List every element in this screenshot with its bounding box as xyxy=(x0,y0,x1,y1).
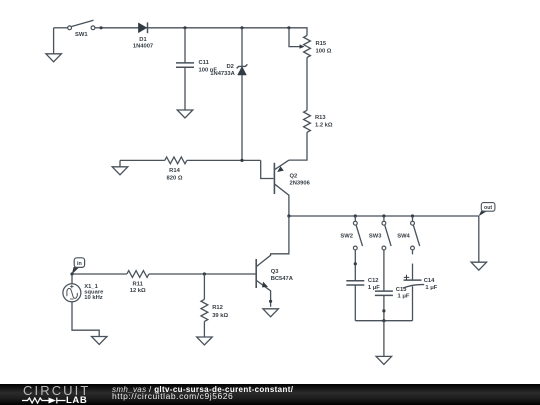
svg-text:SW2: SW2 xyxy=(340,233,353,239)
svg-text:1 μF: 1 μF xyxy=(425,285,437,291)
ground (out) xyxy=(471,216,487,270)
svg-text:R12: R12 xyxy=(212,305,223,311)
ground (R14) xyxy=(112,160,128,174)
svg-text:Q3: Q3 xyxy=(271,269,280,275)
ground (caps) xyxy=(376,321,392,365)
svg-text:10 kHz: 10 kHz xyxy=(84,295,102,301)
svg-text:Q2: Q2 xyxy=(290,173,298,179)
svg-text:D2: D2 xyxy=(227,64,234,70)
potentiometer R15 xyxy=(289,28,332,58)
source X1_1 xyxy=(63,274,104,337)
svg-text:R15: R15 xyxy=(316,41,327,47)
svg-text:SW3: SW3 xyxy=(369,233,382,239)
svg-text:R11: R11 xyxy=(133,282,144,288)
ground (SW1) xyxy=(46,28,62,62)
svg-text:1 μF: 1 μF xyxy=(368,285,380,291)
resistor R11 xyxy=(127,271,256,294)
capacitor C13 xyxy=(375,250,410,321)
svg-text:1N4007: 1N4007 xyxy=(133,43,153,49)
transistor Q2 xyxy=(274,160,310,216)
switch SW3 xyxy=(369,216,391,250)
switch SW1 xyxy=(54,20,101,38)
svg-text:SW1: SW1 xyxy=(75,32,88,38)
wire in to R11 xyxy=(70,272,127,275)
svg-text:C14: C14 xyxy=(424,278,435,284)
transistor Q3 xyxy=(256,216,294,307)
diode D1 xyxy=(133,22,153,49)
svg-text:2N3906: 2N3906 xyxy=(290,180,311,186)
ground (R12) xyxy=(197,337,213,345)
flag in xyxy=(72,258,85,275)
svg-text:1.2 kΩ: 1.2 kΩ xyxy=(315,122,333,128)
svg-text:100 Ω: 100 Ω xyxy=(316,49,332,55)
wire top rail xyxy=(99,26,307,35)
wire R15 to R13 xyxy=(306,58,308,111)
capacitor C12 xyxy=(346,250,380,321)
svg-text:out: out xyxy=(484,205,492,211)
resistor R12 xyxy=(201,274,228,337)
switch SW4 xyxy=(397,216,419,250)
svg-text:1N4733A: 1N4733A xyxy=(210,71,235,77)
resistor R13 xyxy=(304,110,333,132)
svg-text:R13: R13 xyxy=(315,115,326,121)
svg-text:39 kΩ: 39 kΩ xyxy=(212,313,228,319)
svg-text:C11: C11 xyxy=(199,60,210,66)
zener diode D2 xyxy=(210,28,247,161)
svg-text:820 Ω: 820 Ω xyxy=(167,176,183,182)
wire R13 to Q2 emitter xyxy=(289,132,307,160)
ground (C11) xyxy=(177,110,193,118)
wire cap bottom bus xyxy=(355,319,412,322)
flag out xyxy=(479,203,495,217)
switch SW2 xyxy=(340,216,362,250)
svg-text:R14: R14 xyxy=(169,168,180,174)
wire out rail xyxy=(287,214,479,217)
svg-text:C12: C12 xyxy=(368,278,379,284)
ground (Q3) xyxy=(263,309,279,317)
ground (X1_1) xyxy=(92,337,108,345)
wire R14 to Q2 base xyxy=(261,160,274,178)
svg-text:BC547A: BC547A xyxy=(271,276,294,282)
svg-text:SW4: SW4 xyxy=(397,233,410,239)
resistor R14 xyxy=(120,157,261,182)
svg-text:1 μF: 1 μF xyxy=(398,293,410,299)
svg-text:12 kΩ: 12 kΩ xyxy=(130,288,146,294)
svg-text:in: in xyxy=(77,261,82,267)
capacitor C14 (polarized) xyxy=(403,250,438,321)
svg-text:D1: D1 xyxy=(139,37,147,43)
capacitor C11 xyxy=(176,28,217,110)
